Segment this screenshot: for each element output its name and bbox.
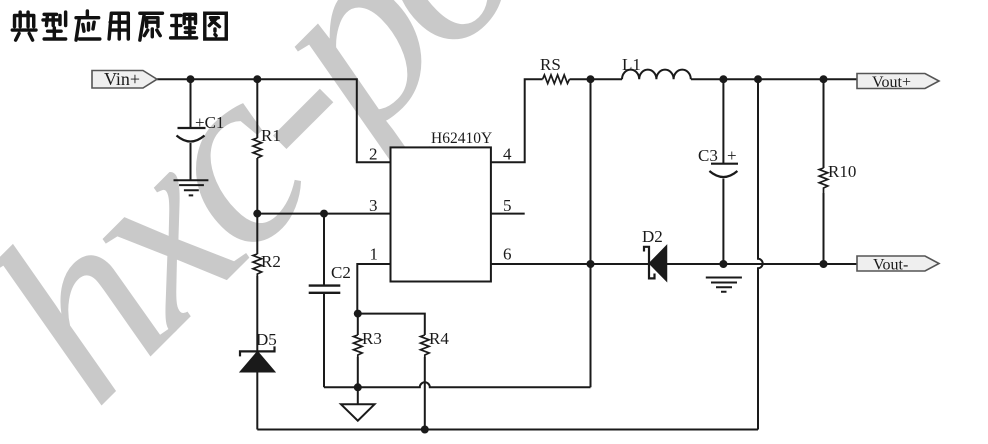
svg-text:R4: R4 [429,329,449,348]
diode D5 (schottky, pointing up) [240,330,277,372]
svg-text:R2: R2 [261,252,281,271]
应 [76,11,100,40]
wire: R10 column [823,79,825,263]
svg-text:D5: D5 [256,330,277,349]
port Vin+ [92,69,157,89]
inductor L1 [622,70,691,80]
svg-text:RS: RS [540,55,561,74]
svg-text:1: 1 [370,245,379,264]
junction C3/Vout+ rail [719,75,727,83]
junction drop wire/Vout+ rail [754,75,762,83]
svg-text:3: 3 [369,196,378,215]
capacitor C2 [309,286,341,293]
junction C2/pin3 [320,210,328,218]
svg-text:Vout-: Vout- [873,257,908,274]
wire: RS to L1 [570,78,623,80]
wire: feedback row [324,382,591,387]
svg-text:C2: C2 [331,263,351,282]
wire: output drop with hop [758,79,763,429]
svg-text:R3: R3 [362,329,382,348]
junction C1/Vin rail [187,75,195,83]
svg-text:D2: D2 [642,227,663,246]
junction R10/Vout+ rail [820,75,828,83]
原 [140,13,163,40]
svg-text:H62410Y: H62410Y [431,130,492,147]
resistor R2 [253,254,262,276]
svg-text:R10: R10 [828,162,856,181]
svg-text:hxc-pow: hxc-pow [0,0,685,444]
port Vout- [857,256,939,274]
wire: pin1 [357,264,390,314]
wire: R4 column [358,314,425,430]
diode D2 (schottky, pointing left) [642,227,667,281]
wire: pin3 row [257,213,390,215]
ground (C3) [706,278,742,292]
resistor R10 [819,168,828,193]
svg-text:+: + [727,146,737,165]
junction RS/L1 node [587,75,595,83]
port Vout+ [857,74,939,92]
wire: C3 column [722,79,724,263]
svg-text:L1: L1 [622,55,641,74]
wire: sense vertical [590,79,592,387]
IC U1 H62410Y [391,147,491,281]
wire: pin6 to D2 [491,263,648,265]
wire: R2 column D5 [256,214,258,430]
wire: bottom rail [257,429,758,431]
svg-text:C3: C3 [698,146,718,165]
ground (C1) [174,180,209,195]
capacitor C3 [709,164,738,177]
svg-text:6: 6 [503,245,512,264]
junction C3/Vout- row [719,260,727,268]
resistor R3 [354,335,363,357]
用 [109,13,128,39]
图 [205,13,226,39]
svg-text:R1: R1 [261,126,281,145]
svg-text:Vin+: Vin+ [104,69,140,89]
wire: pin4 to RS [491,79,543,162]
junction pin1/R3/R4 [354,310,362,318]
wire: gnd3 stem [357,387,359,404]
wire: top rail Vin+ [157,79,391,162]
junction R4/bottom rail [421,426,429,434]
ground (signal triangle) [341,404,375,420]
junction R1/Vin rail [253,75,261,83]
resistor R1 [253,138,262,158]
title 典型应用原理图 (hand drawn strokes) [12,11,226,40]
wire: C2 column [323,214,325,388]
wire: C1 column [190,79,192,180]
wire: L1 right to Vout+ [691,78,857,80]
svg-text:Vout+: Vout+ [872,74,911,91]
resistor RS (horizontal) [543,75,570,84]
型 [43,12,66,39]
wire: D2 to Vout- [667,263,857,265]
resistor R4 [421,335,430,357]
wire: R1 column [256,79,258,213]
svg-text:5: 5 [503,196,512,215]
理 [171,14,197,38]
capacitor C1 [177,128,206,142]
典 [12,12,36,40]
junction sense wire/pin6 row [587,260,595,268]
wire: pin5 stub [491,213,525,215]
svg-text:+C1: +C1 [195,113,224,132]
svg-text:2: 2 [369,145,378,164]
junction R10/Vout- row [820,260,828,268]
svg-text:4: 4 [503,145,512,164]
junction R3/feedback row [354,383,362,391]
junction R1/R2/pin3 [253,210,261,218]
wire: R3 column [357,314,359,388]
